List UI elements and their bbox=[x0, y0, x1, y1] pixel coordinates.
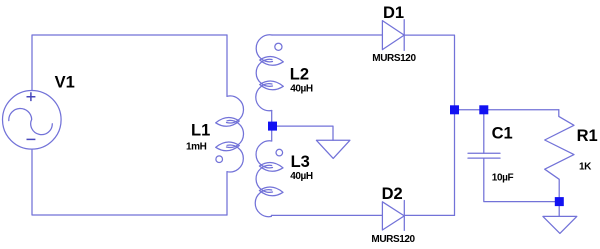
svg-text:40µH: 40µH bbox=[290, 171, 313, 182]
svg-text:L3: L3 bbox=[291, 153, 310, 171]
svg-text:MURS120: MURS120 bbox=[372, 53, 416, 64]
svg-text:1mH: 1mH bbox=[186, 141, 207, 152]
svg-text:L1: L1 bbox=[191, 122, 210, 140]
svg-text:40µH: 40µH bbox=[290, 83, 313, 94]
svg-text:C1: C1 bbox=[492, 125, 513, 143]
svg-text:MURS120: MURS120 bbox=[371, 234, 415, 245]
svg-text:D1: D1 bbox=[383, 4, 404, 22]
svg-text:V1: V1 bbox=[55, 73, 75, 91]
svg-text:1K: 1K bbox=[579, 161, 592, 172]
svg-text:10µF: 10µF bbox=[492, 172, 514, 183]
svg-text:D2: D2 bbox=[382, 185, 403, 203]
svg-text:R1: R1 bbox=[577, 127, 598, 145]
svg-text:L2: L2 bbox=[290, 65, 309, 83]
